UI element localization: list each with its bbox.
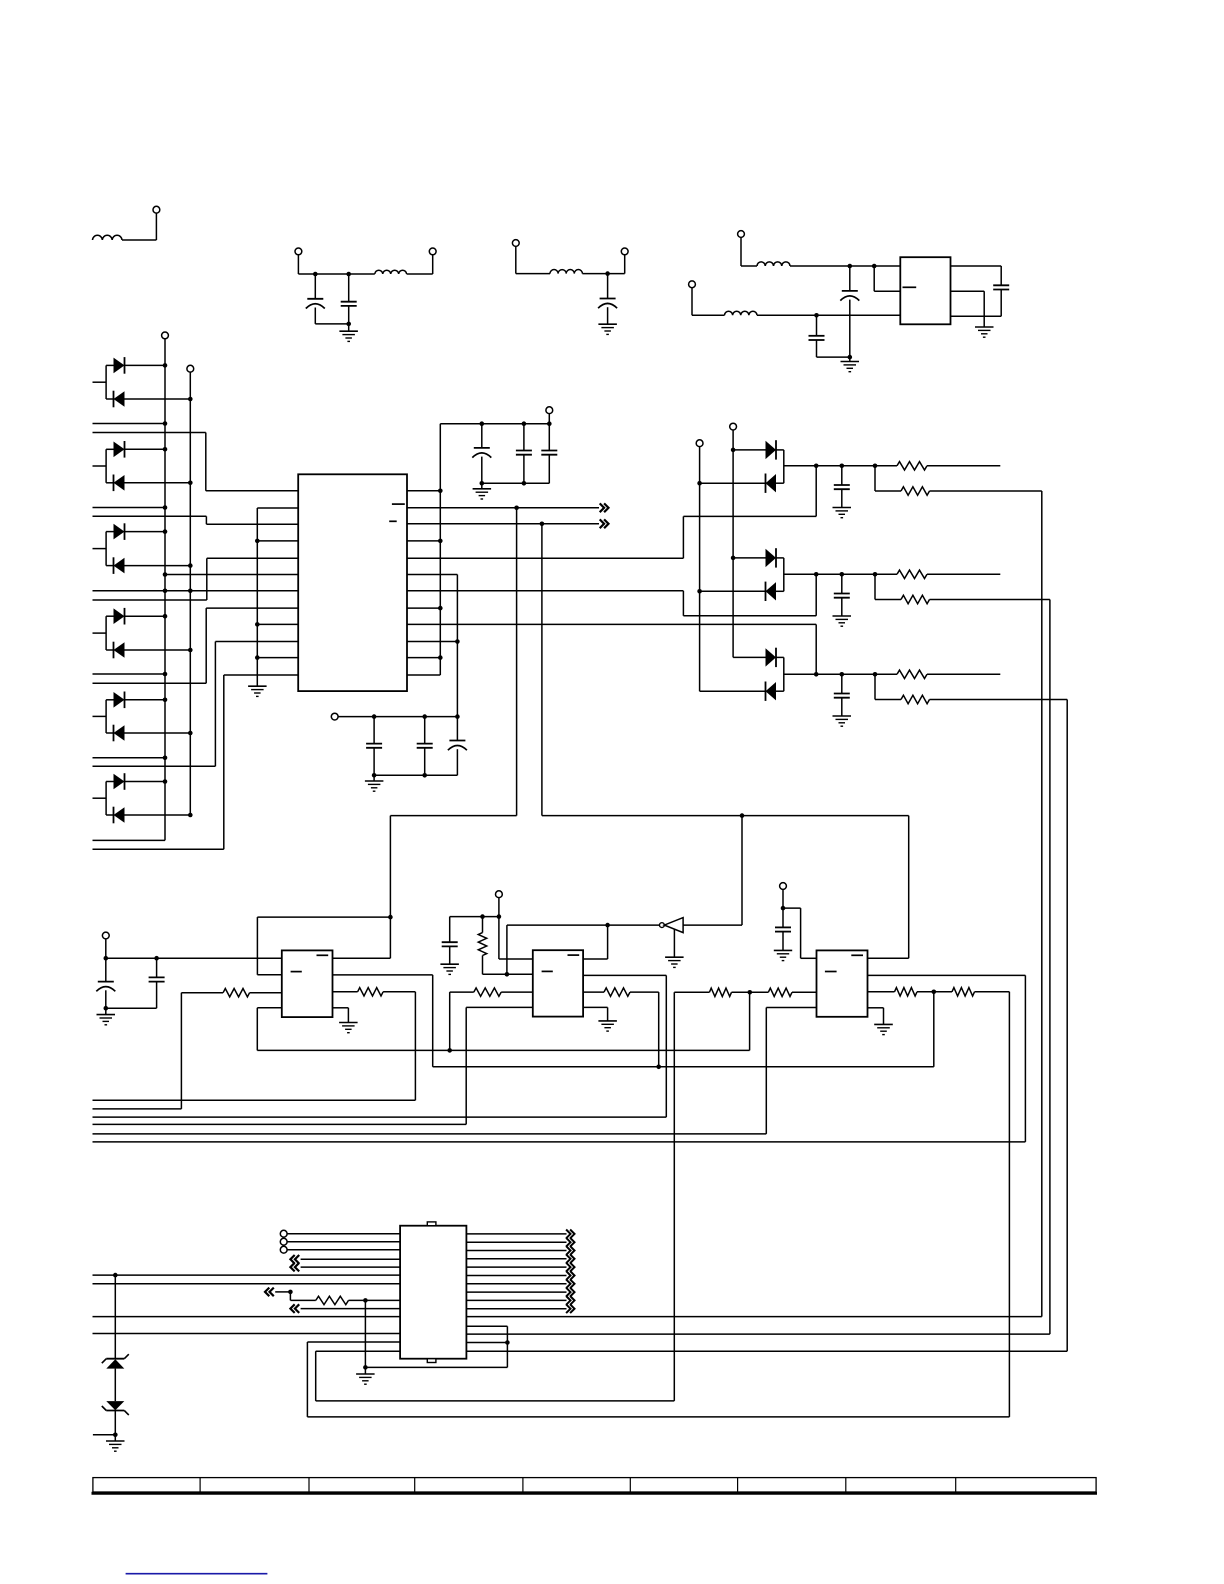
junction: [163, 505, 168, 510]
junction: [505, 972, 510, 977]
off-page arrow: [566, 1254, 574, 1263]
junction: [731, 556, 736, 561]
junction: [497, 914, 502, 919]
wire: [466, 1250, 566, 1252]
wire: [407, 523, 599, 525]
junction: [455, 639, 460, 644]
wire: [927, 465, 1000, 467]
wire: [105, 939, 107, 958]
label dash: [851, 954, 863, 956]
junction: [188, 397, 193, 402]
junction: [372, 773, 377, 778]
wire: [181, 993, 223, 1109]
wire: [766, 1008, 816, 1134]
wire: [466, 1326, 507, 1367]
diode D1B: [106, 391, 190, 408]
wire: [301, 1258, 401, 1260]
capacitor C2: [341, 274, 357, 324]
junction: [163, 421, 168, 426]
wire: [817, 356, 850, 358]
junction: [163, 756, 168, 761]
resistor R14: [895, 988, 918, 996]
resistor R8: [358, 988, 384, 996]
wire: [407, 273, 433, 275]
resistor R6: [901, 695, 930, 703]
ground: [833, 716, 852, 726]
inductor L3: [550, 270, 582, 274]
junction: [113, 1433, 118, 1438]
diode D8A: [733, 548, 784, 567]
wire: [683, 924, 742, 926]
wire: [374, 774, 457, 776]
junction: [163, 698, 168, 703]
wire: [466, 1342, 507, 1344]
wire: [165, 574, 298, 576]
dual diode D3 bracket: [93, 532, 107, 566]
wire: [307, 1342, 1009, 1417]
capacitor C17: [149, 958, 165, 1008]
junction: [163, 363, 168, 368]
capacitor C3: [598, 274, 617, 325]
wire: [407, 574, 816, 616]
diode D3A: [106, 523, 165, 540]
wire: [917, 991, 952, 993]
capacitor C1: [306, 274, 325, 324]
inductor L2: [375, 270, 407, 274]
wire: [93, 642, 299, 767]
diode D7B: [700, 474, 784, 493]
label dash: [291, 971, 302, 973]
off-page arrow: [566, 1230, 574, 1239]
wire: [93, 757, 166, 759]
diode D4A: [106, 608, 165, 625]
junction: [840, 672, 845, 677]
junction: [438, 655, 443, 660]
wire: [466, 1350, 1067, 1352]
wire: [93, 673, 166, 675]
IC U2: [400, 1226, 466, 1359]
off-page arrow: [265, 1288, 274, 1297]
wire: [875, 674, 901, 699]
title block table: [92, 1478, 1098, 1494]
diode D5B: [106, 725, 190, 742]
wire: [93, 516, 299, 524]
wire: [383, 992, 415, 1101]
capacitor C9: [541, 424, 557, 484]
off-page arrow: [566, 1271, 574, 1280]
wire: [507, 925, 608, 974]
junction: [363, 1298, 368, 1303]
junction: [163, 447, 168, 452]
junction: [872, 264, 877, 269]
junction: [873, 572, 878, 577]
bus: [732, 430, 734, 657]
ground: [833, 616, 852, 626]
wire: [501, 991, 533, 993]
wire: [93, 1133, 767, 1135]
diode D9B: [700, 682, 784, 701]
wire: [930, 491, 1042, 1317]
diode D6A: [106, 773, 165, 790]
junction: [188, 481, 193, 486]
junction: [388, 915, 393, 920]
wire: [93, 675, 299, 849]
wire: [440, 414, 549, 424]
label dash: [392, 503, 405, 505]
wire: [499, 898, 533, 959]
wire: [93, 1108, 182, 1110]
wire: [407, 540, 440, 542]
wire: [93, 1274, 401, 1276]
ground: [774, 950, 792, 960]
resistor R5: [897, 670, 927, 678]
wire: [450, 992, 474, 1050]
wire: [951, 291, 985, 327]
wire: [287, 1249, 400, 1251]
junction: [163, 589, 168, 594]
junction: [188, 648, 193, 653]
ground: [665, 929, 684, 968]
wire: [257, 623, 298, 625]
wire: [792, 991, 817, 993]
off-page arrow: [566, 1238, 574, 1247]
junction: [188, 731, 193, 736]
capacitor C14: [834, 574, 850, 616]
wire: [114, 1411, 116, 1435]
wire: [333, 816, 391, 959]
wire: [466, 1258, 566, 1260]
wire: [542, 524, 909, 959]
wire: [407, 657, 440, 659]
wire: [466, 1299, 566, 1301]
label dash: [542, 970, 553, 972]
capacitor C5: [809, 315, 825, 357]
wire: [583, 975, 666, 1117]
off-page arrow: [566, 1246, 574, 1255]
wire: [287, 1233, 400, 1235]
wire: [951, 265, 1002, 267]
label dash: [317, 954, 329, 956]
diode D7A: [733, 440, 784, 459]
dual diode D1 bracket: [93, 365, 107, 399]
wire: [315, 323, 348, 325]
ground: [975, 327, 994, 337]
junction: [163, 779, 168, 784]
wire: [432, 255, 434, 274]
dual diode D4 bracket: [93, 616, 107, 650]
junction: [748, 990, 753, 995]
wire: [515, 247, 517, 274]
wire: [516, 273, 550, 275]
diode D9A: [733, 648, 784, 667]
junction: [163, 572, 168, 577]
off-page arrow: [566, 1279, 574, 1288]
ground: [841, 357, 860, 372]
wire: [93, 507, 166, 509]
wire: [316, 1351, 675, 1401]
wire: [782, 932, 784, 951]
junction: [781, 906, 786, 911]
wire: [433, 992, 934, 1067]
wire: [106, 957, 282, 959]
wire: [450, 916, 499, 918]
wire: [975, 992, 1010, 1417]
wire: [349, 1299, 401, 1301]
wire: [114, 1275, 116, 1359]
ground: [97, 1008, 116, 1025]
capacitor C11: [417, 717, 433, 776]
resistor R11: [604, 988, 630, 996]
wire: [333, 975, 433, 1067]
IC U1: [298, 474, 407, 691]
wire: [257, 657, 298, 659]
junction: [505, 1340, 510, 1345]
junction: [163, 614, 168, 619]
wire: [630, 992, 659, 1067]
IC U4: [533, 950, 583, 1016]
wire: [114, 1369, 116, 1402]
wire: [93, 1141, 1026, 1143]
wire: [106, 1007, 157, 1009]
wire: [782, 890, 784, 928]
wire: [93, 433, 299, 491]
wire: [407, 641, 457, 643]
wire: [93, 1123, 467, 1125]
diode D6B: [106, 807, 190, 824]
wire: [741, 816, 743, 926]
capacitor C15: [834, 674, 850, 716]
label dash: [568, 954, 580, 956]
junction: [438, 539, 443, 544]
junction: [480, 421, 485, 426]
ground: [106, 1435, 125, 1451]
terminal J18: [280, 1238, 287, 1245]
wire: [741, 238, 757, 267]
wire: [466, 1266, 566, 1268]
capacitor C19: [775, 927, 791, 931]
wire: [407, 490, 440, 492]
wire: [466, 1291, 566, 1293]
junction: [188, 589, 193, 594]
junction: [447, 1048, 452, 1053]
wire: [784, 573, 897, 575]
wire: [790, 265, 900, 267]
ground: [339, 324, 358, 342]
hyperlink underline: [126, 1573, 268, 1575]
wire: [407, 607, 440, 609]
junction: [163, 529, 168, 534]
diode D4B: [106, 642, 190, 659]
supply bus: [439, 424, 441, 675]
junction: [255, 539, 260, 544]
terminal J16: [780, 883, 787, 890]
off-page arrow: [600, 519, 609, 528]
junction: [514, 506, 519, 511]
junction: [346, 272, 351, 277]
wire: [287, 1241, 400, 1243]
off-page arrow: [566, 1263, 574, 1272]
off-page arrow: [290, 1304, 299, 1313]
junction: [188, 563, 193, 568]
diode D1A: [106, 357, 165, 374]
wire: [927, 573, 1000, 575]
wire: [466, 1308, 566, 1310]
junction: [840, 464, 845, 469]
junction: [480, 914, 485, 919]
junction: [154, 956, 159, 961]
inductor L5: [725, 311, 757, 315]
wire: [275, 1291, 290, 1293]
wire: [365, 1300, 507, 1367]
wire: [290, 1292, 315, 1301]
wire: [93, 1316, 401, 1318]
terminal J7: [689, 281, 696, 288]
wire: [93, 423, 166, 425]
dual diode D2 bracket: [93, 449, 107, 483]
wire: [250, 992, 282, 994]
resistor R3: [897, 570, 927, 578]
wire: [257, 992, 749, 1050]
ground: [356, 1367, 375, 1384]
wire: [583, 925, 608, 959]
junction: [605, 923, 610, 928]
terminal J8: [162, 332, 169, 339]
bus T1: [93, 339, 166, 841]
junction: [113, 1273, 118, 1278]
junction: [438, 489, 443, 494]
off-page arrow: [566, 1296, 574, 1305]
wire: [407, 624, 816, 674]
resistor R9: [478, 917, 486, 975]
resistor R4: [901, 595, 930, 603]
capacitor C7: [472, 424, 491, 484]
terminal J1: [153, 206, 160, 213]
junction: [932, 990, 937, 995]
junction: [547, 421, 552, 426]
resistor R15: [952, 988, 975, 996]
junction: [814, 672, 819, 677]
wire: [466, 1316, 1041, 1318]
terminal J13: [696, 440, 703, 447]
junction: [873, 464, 878, 469]
bus T2: [189, 372, 191, 815]
ground bus: [248, 508, 298, 696]
capacitor C16: [96, 958, 115, 1008]
junction: [840, 572, 845, 577]
junction: [697, 481, 702, 486]
IC U5: [900, 257, 950, 324]
wire: [930, 600, 1050, 1335]
wire: [466, 1233, 566, 1235]
wire: [93, 558, 299, 600]
capacitor C12: [448, 717, 467, 776]
junction: [255, 622, 260, 627]
capacitor C18: [442, 917, 458, 965]
terminal J6: [738, 231, 745, 238]
terminal J10: [546, 407, 553, 414]
resistor R1: [897, 462, 927, 470]
wire: [868, 1008, 884, 1025]
resistor R16: [316, 1296, 349, 1304]
terminal J17: [280, 1230, 287, 1237]
wire: [390, 508, 516, 816]
wire: [927, 673, 1000, 675]
terminal J5: [621, 248, 628, 255]
wire: [93, 1434, 115, 1436]
wire: [874, 266, 900, 291]
wire: [783, 908, 817, 958]
inductor L1: [93, 235, 122, 240]
wire: [868, 975, 1026, 1142]
resistor R10: [474, 988, 501, 996]
wire: [757, 314, 900, 316]
junction: [313, 272, 318, 277]
junction: [188, 813, 193, 818]
junction: [814, 464, 819, 469]
capacitor C4: [840, 266, 859, 357]
wire: [608, 924, 660, 926]
off-page arrow: [566, 1304, 574, 1313]
wire: [407, 507, 599, 509]
junction: [422, 714, 427, 719]
capacitor C6: [993, 266, 1009, 316]
diode D2B: [106, 475, 190, 492]
diode D2A: [106, 441, 165, 458]
bracket: [783, 450, 785, 483]
junction: [540, 522, 545, 527]
wire: [674, 992, 709, 1401]
inductor L4: [757, 262, 790, 266]
wire: [297, 255, 299, 274]
junction: [522, 421, 527, 426]
wire: [257, 917, 281, 975]
wire: [583, 1007, 608, 1021]
dual diode D6 bracket: [93, 782, 107, 816]
junction: [873, 672, 878, 677]
wire: [298, 273, 374, 275]
terminal J2: [295, 248, 302, 255]
IC U7: [817, 950, 868, 1016]
ground: [874, 1024, 893, 1034]
ground: [598, 324, 617, 334]
bus: [699, 447, 701, 692]
wire: [784, 673, 897, 675]
wire: [93, 1099, 416, 1101]
junction: [740, 813, 745, 818]
wire: [301, 1266, 401, 1268]
wire: [333, 991, 358, 993]
capacitor C10: [366, 717, 382, 776]
zener Z2: [102, 1401, 129, 1415]
junction: [697, 589, 702, 594]
wire: [930, 700, 1068, 1352]
wire: [466, 1283, 566, 1285]
junction: [372, 714, 377, 719]
junction: [656, 1065, 661, 1070]
IC tab: [427, 1359, 436, 1363]
junction: [346, 322, 351, 327]
junction: [848, 264, 853, 269]
capacitor C8: [516, 424, 532, 484]
ground: [598, 1021, 617, 1031]
junction: [104, 956, 109, 961]
wire: [257, 540, 298, 542]
wire: [93, 608, 299, 683]
off-page arrow: [290, 1263, 299, 1272]
label dash: [903, 286, 917, 288]
resistor R12: [768, 988, 792, 996]
junction: [104, 1006, 109, 1011]
